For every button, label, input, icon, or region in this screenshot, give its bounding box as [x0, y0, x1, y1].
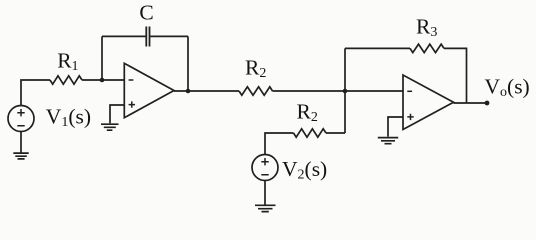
wire op-amp U2 + input to ground — [388, 117, 403, 137]
wire R2 bottom to V2 — [265, 133, 294, 154]
svg-text:R2: R2 — [297, 99, 318, 125]
wire R1 to op-amp U1 inverting input — [82, 79, 124, 81]
node B junction dot — [343, 89, 348, 94]
wire op-amp U1 + input to ground — [110, 105, 124, 123]
op-amp U1 — [124, 63, 174, 117]
wire U1 output — [174, 90, 239, 92]
wire V1 top to R1 — [21, 80, 50, 106]
svg-text:Vo(s): Vo(s) — [485, 75, 530, 101]
svg-text:C: C — [139, 1, 153, 25]
ground (V2) — [255, 205, 276, 211]
voltage source V2 — [252, 155, 278, 181]
wire R3 rail right and down to output — [444, 48, 467, 103]
ground (op-amp U2 +) — [378, 138, 398, 144]
wire capacitor down to output node — [187, 36, 189, 91]
wire V2 to ground — [264, 181, 266, 205]
resistor R3 — [410, 44, 444, 52]
resistor R2 (bottom) — [294, 129, 327, 137]
wire U2 output — [454, 102, 488, 104]
svg-text:R1: R1 — [57, 49, 78, 75]
wire R2 to op-amp U2 inverting input — [273, 90, 404, 92]
svg-text:R2: R2 — [245, 55, 266, 81]
node A junction dot — [100, 78, 105, 83]
ground (op-amp U1 +) — [101, 124, 119, 130]
resistor R1 — [50, 76, 82, 84]
svg-text:V1(s): V1(s) — [46, 105, 91, 131]
wire V1 to ground — [20, 132, 22, 153]
ground (V1) — [13, 153, 28, 159]
wire R2 branch from node B — [326, 132, 345, 134]
svg-text:R3: R3 — [416, 15, 437, 41]
svg-text:V2(s): V2(s) — [282, 157, 327, 183]
resistor R2 (top) — [239, 87, 273, 95]
wire capacitor rail right — [150, 35, 188, 37]
voltage source V1 — [8, 106, 34, 132]
output node junction dot — [186, 89, 191, 94]
wire node A up to capacitor — [101, 36, 103, 80]
op-amp U2 — [403, 75, 454, 130]
capacitor C — [146, 27, 149, 47]
wire R3 rail left — [345, 47, 410, 49]
wire capacitor rail left — [102, 35, 146, 37]
wire node B vertical (R3 rail to R2 branch) — [344, 48, 346, 133]
output terminal dot — [485, 101, 490, 106]
